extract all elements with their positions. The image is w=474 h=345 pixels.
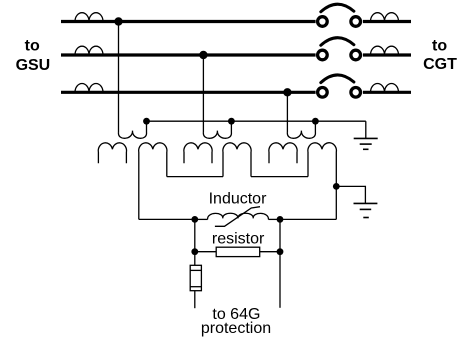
wire node R down to 64G right lead [279, 219, 281, 307]
transformer VT2 secondary winding a (open stubs) [184, 143, 212, 163]
node phase C tap junction [283, 88, 291, 96]
CT coil phase A left [75, 13, 103, 22]
node VT1 primary neutral junction [143, 118, 150, 125]
CT coil phase C left [75, 84, 103, 93]
wire node L down to resistor branch [194, 219, 196, 251]
svg-text:to: to [432, 37, 447, 54]
node VT3 primary neutral junction [312, 118, 319, 125]
svg-text:protection: protection [201, 320, 271, 337]
wire node L to inductor [195, 218, 208, 220]
svg-text:to: to [25, 37, 40, 54]
transformer VT2 secondary winding b (broken delta) [223, 143, 251, 177]
resistor R1 body [216, 247, 260, 256]
bus phase B line right segment [363, 53, 411, 56]
wire node left down to resistor R2 [194, 252, 196, 266]
wire phase C tap to VT3 primary [286, 92, 288, 132]
node phase B tap junction [199, 51, 207, 59]
node resistor branch left [191, 248, 198, 255]
wire phase B tap to VT2 primary [202, 55, 204, 133]
svg-text:Inductor: Inductor [209, 191, 267, 208]
bus phase C line left segment [61, 91, 316, 94]
wire neutral bus down to ground 1 [365, 121, 367, 138]
node phase A tap junction [114, 17, 122, 25]
transformer VT3 secondary winding b (broken delta) [308, 143, 337, 187]
breaker phase A [318, 4, 361, 26]
transformer VT3 primary winding [287, 121, 315, 138]
inductor variable arrow [215, 207, 260, 227]
svg-text:CGT: CGT [423, 56, 457, 73]
node broken delta corner to ground 2 [333, 183, 340, 190]
resistor R2 body (grounding resistor) [190, 265, 201, 290]
wire inductor to node R [268, 218, 280, 220]
node VT2 primary neutral junction [228, 118, 235, 125]
wire phase A tap to VT1 primary [118, 22, 120, 133]
bus phase B line left segment [61, 53, 316, 56]
transformer VT3 secondary winding a (open stubs) [269, 143, 297, 163]
wire resistor R2 down to 64G left lead [194, 291, 196, 309]
wire broken delta right end down [335, 186, 337, 219]
node resistor branch right [277, 248, 284, 255]
wire bottom loop left (VT1b left leg to node L) [139, 218, 195, 220]
node R (inductor/resistor right) [277, 216, 284, 223]
svg-text:resistor: resistor [212, 231, 265, 248]
transformer VT1 secondary winding a (open stubs) [98, 143, 126, 163]
ground 1 symbol [354, 138, 378, 149]
wire broken delta link VT1b to VT2b [167, 176, 223, 178]
CT coil phase A right [371, 13, 399, 22]
breaker phase C [318, 75, 361, 97]
ground 2 symbol [354, 203, 378, 217]
node L (inductor/resistor left) [191, 216, 198, 223]
wire broken delta link VT2b to VT3b [251, 176, 308, 178]
wire to resistor R1 [195, 251, 216, 253]
transformer VT1 primary winding [118, 121, 146, 138]
transformer VT2 primary winding [203, 121, 231, 138]
bus phase A line left segment [61, 20, 316, 23]
wire resistor R1 to node [260, 251, 280, 253]
transformer VT1 secondary winding b (broken delta) [139, 143, 167, 220]
CT coil phase B left [75, 46, 103, 55]
CT coil phase C right [371, 84, 399, 93]
wire node R to delta corner [280, 218, 336, 220]
breaker phase B [318, 38, 361, 60]
bus phase A line right segment [363, 20, 411, 23]
wire to ground 2 [336, 186, 365, 203]
CT coil phase B right [371, 46, 399, 55]
svg-text:GSU: GSU [16, 57, 51, 74]
bus phase C line right segment [363, 91, 411, 94]
inductor L1 (variable) [208, 213, 269, 219]
wire primary neutral bus [147, 120, 366, 122]
